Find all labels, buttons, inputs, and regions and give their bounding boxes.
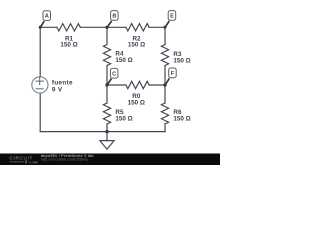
svg-text:150 Ω: 150 Ω <box>60 42 77 49</box>
svg-text:http://circuitlab.com/c55bws: http://circuitlab.com/c55bws <box>41 158 88 162</box>
wire R6 to bottom rail <box>164 124 166 132</box>
resistor R0 <box>126 81 149 88</box>
wire C down to R5 <box>106 85 108 103</box>
wire R1 to node B <box>80 26 107 28</box>
node A leader <box>40 21 44 27</box>
resistor R6 <box>161 103 168 124</box>
voltage source V1 circle <box>32 77 48 93</box>
wire left vertical bottom (source to bottom rail) <box>39 93 41 131</box>
svg-text:E: E <box>170 14 174 20</box>
wire R0 to node F <box>149 84 165 86</box>
wire R2 to node E <box>149 26 165 28</box>
node dot A <box>39 26 42 29</box>
node A flag <box>43 11 51 21</box>
svg-text:C: C <box>112 71 116 77</box>
svg-text:150 Ω: 150 Ω <box>173 58 190 65</box>
node E flag <box>168 11 176 21</box>
wire top rail A to R1 <box>40 26 57 28</box>
wire R5 to bottom rail <box>106 124 108 132</box>
wire R4 to node C <box>106 66 108 86</box>
node C flag <box>110 68 118 78</box>
node B leader <box>107 21 111 27</box>
svg-text:F: F <box>171 71 175 77</box>
wire node C to R0 <box>107 84 126 86</box>
node dot E <box>164 26 167 29</box>
CircuitLab logo capacitor line + LAB <box>10 160 30 163</box>
junction dot ground tap <box>105 130 108 133</box>
wire ground stub <box>106 132 108 141</box>
node C leader <box>107 79 111 85</box>
resistor R2 <box>126 24 149 31</box>
resistor R4 <box>103 45 110 66</box>
node B flag <box>111 11 119 21</box>
footer black bar <box>0 153 220 165</box>
junction dot node B <box>105 26 108 29</box>
svg-text:150 Ω: 150 Ω <box>173 116 190 123</box>
junction dot node C <box>105 83 108 86</box>
svg-text:9 V: 9 V <box>52 86 63 93</box>
node E leader <box>165 21 169 27</box>
wire R3 to node F <box>164 66 166 86</box>
node F flag <box>169 68 177 78</box>
voltage source minus sign <box>36 88 44 90</box>
wire left vertical top (A to source) <box>39 27 41 77</box>
wire F down to R6 <box>164 85 166 103</box>
svg-text:150 Ω: 150 Ω <box>128 42 145 49</box>
wire E down to R3 <box>164 27 166 44</box>
svg-text:B: B <box>112 14 116 20</box>
junction dot node F <box>163 83 166 86</box>
ground <box>100 141 114 150</box>
svg-text:150 Ω: 150 Ω <box>115 116 132 123</box>
svg-text:LAB: LAB <box>30 160 38 164</box>
voltage source plus sign <box>35 77 44 85</box>
svg-text:A: A <box>45 14 49 20</box>
resistor R1 <box>57 24 80 31</box>
svg-text:150 Ω: 150 Ω <box>128 99 145 106</box>
wire bottom rail <box>40 131 165 133</box>
svg-text:150 Ω: 150 Ω <box>115 57 132 64</box>
node F leader <box>165 78 169 85</box>
wire B down to R4 <box>106 27 108 44</box>
wire node B to R2 <box>107 26 126 28</box>
resistor R3 <box>161 45 168 66</box>
resistor R5 <box>103 103 110 124</box>
